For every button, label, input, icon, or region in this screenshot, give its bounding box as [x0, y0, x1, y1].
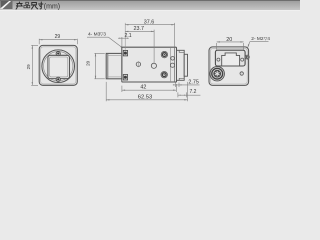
svg-text:4- M3: 4- M3 — [88, 32, 101, 38]
svg-text:29: 29 — [26, 64, 31, 70]
lens mount outer circle — [42, 50, 75, 83]
svg-text:20: 20 — [226, 37, 232, 43]
rear top ring hole — [161, 51, 167, 57]
barrel inner top line — [108, 54, 122, 56]
dim 2.1 — [118, 37, 129, 46]
barrel inner bottom line — [108, 76, 122, 78]
header bar — [0, 0, 300, 10]
barrel front face double line — [107, 53, 109, 78]
rear seam — [169, 47, 171, 82]
svg-text:▽3: ▽3 — [100, 32, 107, 37]
front inner chamfer — [41, 47, 76, 84]
dim 20 barrel (vertical) — [94, 53, 104, 78]
dim 2.75 — [173, 83, 200, 88]
dim 29 left (front) — [31, 45, 38, 85]
lens barrel — [106, 53, 122, 78]
svg-text:42: 42 — [140, 85, 146, 91]
front bottom screw (dark) — [123, 75, 127, 81]
svg-text:(mm): (mm) — [44, 4, 60, 11]
svg-text:2.1: 2.1 — [124, 33, 131, 39]
header title 产品尺寸 (mm) — [16, 2, 43, 9]
header icon — [1, 1, 13, 9]
svg-text:29: 29 — [55, 34, 61, 40]
flange ref ext line — [124, 23, 126, 50]
bottom set screw — [56, 77, 60, 81]
svg-text:23.7: 23.7 — [134, 26, 145, 32]
LED — [240, 72, 243, 75]
lens mount inner circle — [44, 51, 73, 80]
dim 20 (back) — [217, 41, 244, 50]
dim 42 — [122, 84, 176, 92]
sensor plate — [48, 55, 70, 78]
power connector — [210, 67, 224, 81]
RJ45 jack — [222, 53, 240, 66]
front top screw (dark) — [123, 50, 127, 56]
rear small hole top — [171, 57, 175, 61]
dim 23.7 — [125, 30, 154, 63]
svg-text:7.2: 7.2 — [190, 89, 197, 95]
front body outline — [39, 45, 77, 85]
connector block step lines — [179, 50, 184, 80]
bezel screw right — [241, 58, 244, 61]
RJ45 recess — [215, 50, 245, 66]
svg-text:2.75: 2.75 — [188, 79, 199, 85]
connector tip — [184, 54, 187, 76]
rear bottom ring hole — [161, 72, 167, 78]
svg-text:▽4: ▽4 — [264, 36, 271, 41]
bezel screw left — [217, 58, 220, 61]
dim 7.2 — [178, 92, 201, 97]
svg-text:37.6: 37.6 — [144, 19, 155, 25]
side body — [122, 47, 177, 82]
back body outline — [209, 47, 249, 86]
svg-text:62.53: 62.53 — [138, 95, 153, 101]
connector block — [177, 50, 185, 80]
back inner chamfer — [210, 48, 247, 84]
svg-text:2- M2: 2- M2 — [251, 36, 264, 42]
tripod hole mid — [151, 63, 156, 68]
dim 62.53 — [106, 82, 187, 101]
top set screw — [56, 52, 60, 56]
screw hole mid-front — [136, 62, 140, 66]
dim 37.6 — [125, 23, 174, 47]
sensor plate inner — [50, 57, 68, 77]
rear small hole bottom — [170, 63, 174, 67]
dim 29 top (front) — [39, 39, 77, 45]
svg-text:20: 20 — [86, 60, 91, 66]
M2 screw right edge — [245, 55, 249, 59]
